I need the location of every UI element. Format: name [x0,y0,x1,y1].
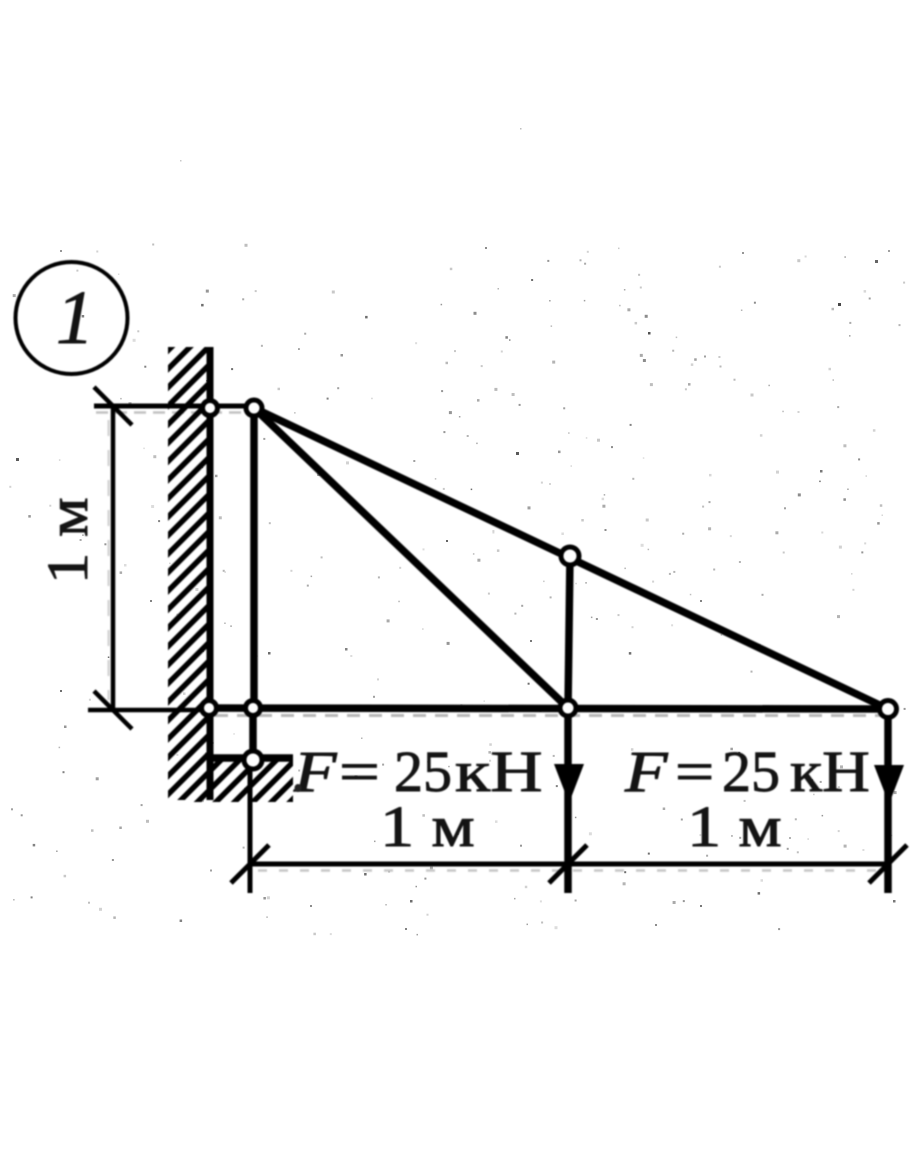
svg-text:1 м: 1 м [380,794,475,859]
svg-text:1 м: 1 м [36,497,100,584]
svg-text:F: F [624,739,669,803]
svg-text:1: 1 [56,276,94,360]
svg-text:=: = [339,740,380,804]
svg-text:1 м: 1 м [687,794,782,859]
svg-text:кН: кН [790,741,870,804]
svg-text:F: F [293,739,338,803]
